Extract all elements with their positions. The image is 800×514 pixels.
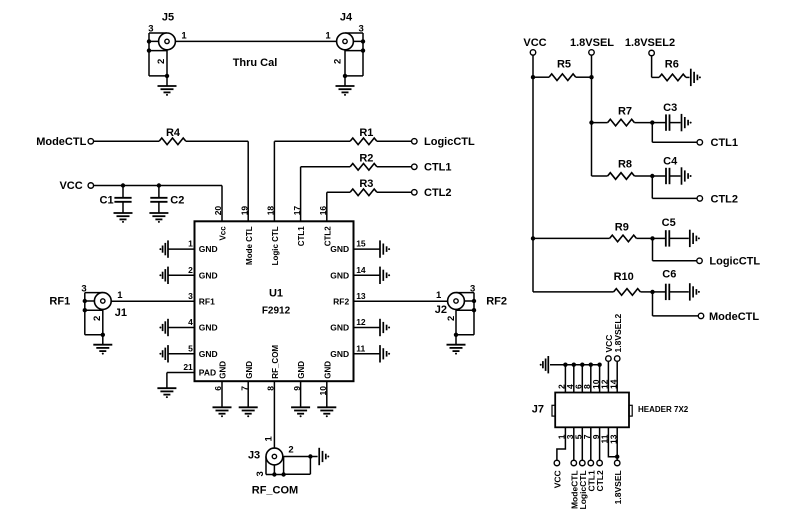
- junction 1.8VSEL/R5: [589, 75, 593, 79]
- wire J5 pin2 down: [166, 50, 168, 76]
- svg-text:CTL1: CTL1: [424, 162, 452, 174]
- wire pin21 down: [166, 373, 168, 389]
- junction J7 pin 8: [589, 363, 593, 367]
- wire to ModeCTL terminal: [653, 315, 699, 317]
- ground (U1 pin 4): [163, 319, 168, 336]
- wire C1 to ground: [122, 202, 124, 213]
- wire J7 pin 9 down: [599, 427, 601, 460]
- svg-text:LogicCTL: LogicCTL: [709, 256, 760, 268]
- ground (J7 top): [543, 356, 548, 373]
- node CTL2 terminal: [412, 190, 418, 196]
- wire R7 to C3: [634, 122, 652, 124]
- junction C4: [650, 174, 654, 178]
- svg-text:7: 7: [239, 386, 249, 391]
- ground (U1 pin 2): [163, 267, 168, 284]
- svg-text:13: 13: [356, 291, 366, 301]
- svg-text:6: 6: [213, 386, 223, 391]
- junction J7 pin 6: [580, 363, 584, 367]
- svg-text:C3: C3: [663, 102, 677, 114]
- svg-text:R6: R6: [665, 58, 679, 70]
- node ModeCTL terminal: [698, 313, 704, 319]
- wire VCC rail: [94, 185, 222, 187]
- wire pin17 vertical: [300, 167, 302, 222]
- capacitor C1: [122, 186, 124, 198]
- svg-text:GND: GND: [323, 361, 332, 379]
- ground (U1 pin 14): [380, 267, 387, 284]
- ground (U1 pin 15): [380, 240, 387, 257]
- svg-text:17: 17: [292, 206, 302, 216]
- svg-text:R9: R9: [615, 222, 629, 234]
- wire R2 to CTL1: [377, 166, 411, 168]
- svg-text:2: 2: [92, 316, 103, 321]
- ground (C1): [114, 213, 133, 219]
- svg-text:RF2: RF2: [333, 296, 349, 306]
- wire J7 pin 4 up: [573, 365, 575, 393]
- svg-text:1: 1: [117, 290, 123, 301]
- capacitor C4: [666, 168, 670, 184]
- svg-text:1.8VSEL2: 1.8VSEL2: [625, 37, 675, 49]
- pin 11 stub (U1 right GND): [354, 353, 380, 355]
- resistor R6: [659, 74, 686, 81]
- wire U1 RF2 to J2 pin1: [354, 300, 448, 302]
- svg-text:GND: GND: [245, 361, 254, 379]
- svg-text:VCC: VCC: [59, 180, 82, 192]
- wire pin19 vertical: [247, 141, 249, 221]
- resistor R4: [159, 138, 186, 145]
- svg-text:PAD: PAD: [199, 368, 216, 378]
- svg-text:1.8VSEL: 1.8VSEL: [570, 37, 614, 49]
- svg-text:C4: C4: [663, 156, 678, 168]
- junction J7 pin 4: [572, 363, 576, 367]
- ground (J2): [447, 345, 466, 351]
- svg-text:R5: R5: [557, 59, 571, 71]
- svg-text:Vcc: Vcc: [219, 226, 228, 241]
- wire J1 to ground: [102, 335, 104, 345]
- svg-text:LogicCTL: LogicCTL: [424, 136, 475, 148]
- wire J3 pin2 right: [283, 456, 318, 458]
- wire J2 to ground: [455, 335, 457, 345]
- pin 6 stub (U1 bottom GND): [221, 381, 223, 407]
- resistor R3: [350, 189, 377, 196]
- node 1.8VSEL (J7 pin 13): [614, 460, 620, 466]
- wire R4 to pin19: [186, 140, 248, 142]
- svg-text:F2912: F2912: [262, 306, 291, 317]
- pin 2 stub (U1 left GND): [169, 274, 195, 276]
- wire 1.8VSEL vertical rail: [591, 56, 593, 177]
- svg-text:GND: GND: [199, 244, 218, 254]
- resistor R8: [608, 173, 635, 180]
- wire R10 to C6: [640, 291, 652, 293]
- wire J7 pin 3 down: [573, 427, 575, 460]
- wire R8 to C4: [634, 175, 652, 177]
- connector J1: [83, 293, 112, 313]
- wire R3 to CTL2: [377, 191, 411, 193]
- junction J7 pin 10: [597, 363, 601, 367]
- J7 left tab: [552, 405, 555, 416]
- wire U1 RF_COM down to J3: [273, 381, 275, 448]
- wire to R7: [592, 122, 608, 124]
- svg-text:C2: C2: [170, 195, 184, 207]
- node VCC (J7 pin 1): [554, 460, 560, 466]
- svg-text:2: 2: [156, 59, 167, 64]
- svg-text:1.8VSEL: 1.8VSEL: [613, 470, 623, 504]
- wire J7 pin 7 down: [590, 427, 592, 460]
- wire J1 pin2 down: [102, 309, 104, 334]
- svg-text:R1: R1: [359, 127, 373, 139]
- svg-text:CTL2: CTL2: [711, 193, 739, 205]
- svg-text:CTL1: CTL1: [297, 226, 306, 247]
- pin 7 stub (U1 bottom GND): [247, 381, 249, 407]
- wire junction to C4: [652, 175, 666, 177]
- ground (U1 pin 11): [380, 345, 387, 362]
- svg-text:16: 16: [318, 206, 328, 216]
- J7 right tab: [629, 405, 632, 416]
- resistor R10: [614, 289, 641, 296]
- svg-text:3: 3: [358, 24, 363, 35]
- wire pin17 to R2: [301, 166, 351, 168]
- junction J1 ground: [101, 333, 105, 337]
- wire J1 pin3 leg down: [84, 310, 86, 335]
- svg-text:2: 2: [288, 445, 293, 456]
- pin 15 stub (U1 right GND): [354, 248, 380, 250]
- wire R1 to LogicCTL: [377, 140, 411, 142]
- ground (U1 pin 9): [291, 407, 310, 413]
- svg-text:1.8VSEL2: 1.8VSEL2: [613, 313, 623, 352]
- svg-text:GND: GND: [219, 361, 228, 379]
- wire J7 pin 2 up: [564, 365, 566, 393]
- wire pin16 to R3: [327, 191, 350, 193]
- wire to R9: [533, 237, 610, 239]
- wire J7 pin 11 down: [608, 427, 617, 456]
- wire VCC to R5: [533, 76, 549, 78]
- svg-text:R2: R2: [359, 152, 373, 164]
- node 1.8VSEL2 (J7 pin 14): [614, 356, 620, 362]
- wire C5 to ground: [669, 237, 689, 239]
- wire junction down: [651, 176, 653, 198]
- svg-text:ModeCTL: ModeCTL: [709, 311, 759, 323]
- junction C2: [157, 183, 161, 187]
- wire junction to C5: [653, 237, 666, 239]
- capacitor C6: [666, 284, 670, 300]
- svg-text:R4: R4: [166, 127, 181, 139]
- capacitor C2: [158, 186, 160, 198]
- svg-text:J3: J3: [248, 450, 260, 462]
- ground (C6): [690, 283, 697, 300]
- wire pin18 vertical: [273, 141, 275, 221]
- connector J3: [266, 448, 286, 477]
- wire J5 to ground: [166, 76, 168, 86]
- pin 14 stub (U1 right GND): [354, 274, 380, 276]
- svg-text:1: 1: [325, 31, 331, 42]
- node ModeCTL (J7 pin 3): [571, 460, 577, 466]
- wire C3 to ground: [670, 122, 681, 124]
- svg-text:U1: U1: [269, 288, 283, 300]
- junction 1.8VSEL/R7: [589, 120, 593, 124]
- node LogicCTL terminal: [697, 258, 703, 264]
- svg-text:GND: GND: [330, 323, 349, 333]
- svg-text:21: 21: [183, 362, 193, 372]
- junction J3 pin2: [308, 454, 312, 458]
- svg-text:RF_COM: RF_COM: [252, 485, 298, 497]
- svg-text:GND: GND: [330, 349, 349, 359]
- svg-text:12: 12: [356, 317, 366, 327]
- wire pin18 to R1: [274, 140, 350, 142]
- pin 1 stub (U1 left GND): [169, 248, 195, 250]
- svg-text:CTL2: CTL2: [595, 470, 605, 492]
- svg-text:1: 1: [181, 31, 187, 42]
- resistor R7: [608, 119, 635, 126]
- svg-text:R10: R10: [614, 271, 634, 283]
- svg-text:GND: GND: [199, 270, 218, 280]
- connector J4: [337, 33, 366, 53]
- svg-text:RF2: RF2: [486, 296, 507, 308]
- ground (R6): [691, 69, 698, 86]
- svg-text:15: 15: [356, 239, 366, 249]
- resistor R1: [350, 138, 377, 145]
- pin 21 stub (PAD): [167, 372, 195, 374]
- wire R9 to C5: [636, 237, 652, 239]
- node VCC (J7 pin 12): [606, 356, 612, 362]
- connector J2: [448, 293, 477, 313]
- wire J7 pin 14 up: [616, 362, 618, 393]
- wire J2 pin2 down: [455, 309, 457, 334]
- svg-text:J5: J5: [162, 12, 174, 24]
- resistor R9: [610, 235, 637, 242]
- ground (J1): [93, 345, 112, 351]
- ground (U1 pin 12): [380, 319, 387, 336]
- wire J7 pin 13 down: [616, 427, 618, 460]
- ground (J4): [336, 86, 355, 92]
- svg-text:J1: J1: [115, 307, 127, 319]
- svg-text:10: 10: [318, 386, 328, 396]
- wire J7 pin 1 down: [557, 427, 566, 460]
- ground (J3): [319, 448, 326, 465]
- ground (C2): [149, 213, 168, 219]
- wire J7 pin 8 up: [590, 365, 592, 393]
- ground (J5): [158, 86, 177, 92]
- svg-text:GND: GND: [199, 323, 218, 333]
- wire to LogicCTL terminal: [653, 260, 697, 262]
- wire J1 bottom: [85, 334, 103, 336]
- wire C6 to ground: [669, 291, 689, 293]
- svg-text:2: 2: [446, 316, 457, 321]
- wire 1.8VSEL2 down: [651, 56, 653, 77]
- svg-text:14: 14: [356, 265, 366, 275]
- svg-text:3: 3: [188, 291, 193, 301]
- wire J4 bottom: [345, 75, 363, 77]
- svg-text:5: 5: [188, 343, 193, 353]
- svg-text:CTL2: CTL2: [323, 226, 332, 247]
- pin 9 stub (U1 bottom GND): [300, 381, 302, 407]
- svg-text:3: 3: [470, 284, 475, 295]
- wire J7 ground bus: [550, 364, 600, 366]
- svg-text:C5: C5: [662, 217, 676, 229]
- junction J5 ground: [165, 74, 169, 78]
- svg-text:RF1: RF1: [49, 296, 70, 308]
- svg-text:Logic CTL: Logic CTL: [271, 226, 280, 265]
- wire junction down: [652, 292, 654, 316]
- node CTL1 terminal: [697, 140, 703, 146]
- ground (C3): [682, 114, 689, 131]
- node CTL1 terminal: [412, 164, 418, 170]
- svg-text:GND: GND: [330, 270, 349, 280]
- ground (C4): [682, 167, 689, 184]
- wire junction down: [652, 238, 654, 260]
- svg-text:3: 3: [148, 24, 153, 35]
- wire pin20 vertical: [221, 186, 223, 222]
- svg-text:Mode CTL: Mode CTL: [245, 226, 254, 265]
- svg-text:3: 3: [255, 471, 266, 476]
- capacitor C3: [666, 114, 670, 130]
- svg-text:11: 11: [356, 343, 365, 353]
- resistor R5: [549, 74, 576, 81]
- connector J7 body: [555, 393, 629, 428]
- wire C2 to ground: [158, 202, 160, 213]
- junction J2 ground: [454, 333, 458, 337]
- wire J5 bottom: [149, 75, 167, 77]
- svg-text:R7: R7: [618, 105, 632, 117]
- wire J3 bottom ext: [284, 473, 311, 475]
- ground (U1 pin 21): [157, 388, 176, 394]
- junction J4 ground: [343, 74, 347, 78]
- wire C4 to ground: [670, 175, 681, 177]
- svg-text:R3: R3: [359, 178, 373, 190]
- wire J3 pin2 down: [309, 457, 311, 475]
- svg-text:HEADER 7X2: HEADER 7X2: [638, 405, 689, 414]
- junction J7 pin 2: [563, 363, 567, 367]
- wire to CTL2 terminal: [652, 197, 697, 199]
- svg-text:GND: GND: [199, 349, 218, 359]
- pin 12 stub (U1 right GND): [354, 327, 380, 329]
- wire to CTL1 terminal: [652, 141, 697, 143]
- svg-text:ModeCTL: ModeCTL: [36, 136, 86, 148]
- wire R5 to 1.8VSEL: [576, 76, 592, 78]
- svg-text:C6: C6: [662, 269, 676, 281]
- wire J7 pin 12 up: [607, 362, 609, 393]
- op-amp U1 body (F2912): [195, 221, 354, 381]
- wire junction down: [651, 123, 653, 143]
- svg-text:1: 1: [188, 239, 193, 249]
- capacitor C5: [666, 230, 670, 246]
- node CTL2 terminal: [697, 196, 703, 202]
- svg-text:1: 1: [263, 436, 274, 442]
- svg-text:CTL2: CTL2: [424, 187, 452, 199]
- ground (U1 pin 1): [163, 240, 168, 257]
- svg-text:VCC: VCC: [523, 37, 546, 49]
- svg-text:19: 19: [239, 206, 249, 216]
- wire J7 pin 10 up: [599, 365, 601, 393]
- svg-text:C1: C1: [100, 195, 114, 207]
- svg-text:4: 4: [188, 317, 193, 327]
- svg-text:Thru Cal: Thru Cal: [233, 57, 278, 69]
- wire J5 pin1 to J4 pin1 (Thru Cal): [175, 40, 336, 42]
- wire to R6: [652, 76, 660, 78]
- svg-text:13: 13: [608, 434, 618, 444]
- junction VCC/R9: [531, 236, 535, 240]
- svg-text:2: 2: [333, 59, 344, 64]
- wire junction to C3: [652, 122, 666, 124]
- node CTL2 (J7 pin 9): [597, 460, 603, 466]
- wire ModeCTL to R4: [94, 140, 159, 142]
- wire VCC vertical rail: [532, 56, 534, 292]
- ground (U1 pin 10): [317, 407, 336, 413]
- svg-text:GND: GND: [330, 244, 349, 254]
- svg-text:GND: GND: [297, 361, 306, 379]
- ground (U1 pin 7): [239, 407, 258, 413]
- svg-text:J2: J2: [435, 304, 447, 316]
- wire R6 to ground: [686, 76, 690, 78]
- pin 10 stub (U1 bottom GND): [326, 381, 328, 407]
- node CTL1 (J7 pin 7): [588, 460, 594, 466]
- svg-text:RF_COM: RF_COM: [271, 345, 280, 379]
- wire J2 pin3 leg down: [473, 310, 475, 335]
- svg-text:9: 9: [292, 386, 302, 391]
- junction VCC/R5: [531, 75, 535, 79]
- svg-text:J4: J4: [340, 12, 353, 24]
- svg-text:1: 1: [436, 290, 442, 301]
- wire J4 pin3 leg down: [362, 51, 364, 76]
- svg-text:20: 20: [213, 206, 223, 216]
- wire J1 pin1 to U1 RF1: [111, 300, 194, 302]
- wire to R8: [592, 175, 608, 177]
- wire J2 bottom: [456, 334, 474, 336]
- junction C1: [121, 183, 125, 187]
- wire junction to C6: [653, 291, 666, 293]
- junction J7 pin13: [615, 455, 619, 459]
- svg-text:2: 2: [188, 265, 193, 275]
- wire pin16 vertical: [326, 192, 328, 221]
- connector J5: [147, 33, 176, 53]
- junction C5: [650, 236, 654, 240]
- wire J7 pin 5 down: [581, 427, 583, 460]
- pin 5 stub (U1 left GND): [169, 353, 195, 355]
- svg-text:CTL1: CTL1: [711, 137, 739, 149]
- wire J5 pin3 leg down: [148, 51, 150, 76]
- pin 4 stub (U1 left GND): [169, 327, 195, 329]
- svg-text:3: 3: [81, 284, 86, 295]
- wire J4 to ground: [344, 76, 346, 86]
- svg-text:R8: R8: [618, 159, 632, 171]
- wire J4 pin2 down: [344, 50, 346, 76]
- ground (U1 pin 5): [163, 345, 168, 362]
- ground (U1 pin 6): [213, 407, 232, 413]
- ground (C5): [690, 230, 697, 247]
- junction C3: [650, 120, 654, 124]
- node LogicCTL terminal: [412, 139, 418, 145]
- svg-text:J7: J7: [532, 404, 544, 416]
- resistor R2: [350, 164, 377, 171]
- node LogicCTL (J7 pin 5): [580, 460, 586, 466]
- svg-text:RF1: RF1: [199, 296, 215, 306]
- svg-text:VCC: VCC: [553, 470, 563, 488]
- wire J7 pin 6 up: [581, 365, 583, 393]
- svg-text:18: 18: [266, 206, 276, 216]
- wire to R10: [533, 291, 614, 293]
- junction C6: [650, 290, 654, 294]
